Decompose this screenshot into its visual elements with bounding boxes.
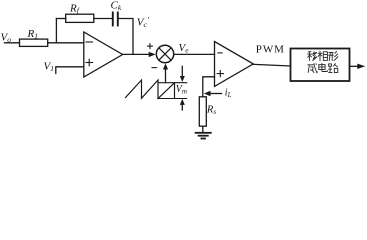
node Ve label xyxy=(179,42,190,55)
wire Rs to ground xyxy=(202,126,204,132)
op-amp U1 xyxy=(84,32,123,77)
char 形 xyxy=(328,51,338,61)
wire summer to comparator inverting input xyxy=(174,53,214,55)
char 成 xyxy=(308,63,318,73)
resistor Rs xyxy=(199,97,206,126)
char 移 xyxy=(307,51,317,61)
node Vm amplitude arrows xyxy=(181,66,183,77)
char 路 xyxy=(328,63,338,72)
wire box output with arrow xyxy=(350,65,359,67)
char 电 xyxy=(319,63,327,71)
wire comparator non-inverting input to Rs xyxy=(203,77,215,97)
comparator U2 xyxy=(215,42,254,87)
label 移相形成电路 (phase-shift forming circuit) drawn as strokes xyxy=(307,51,338,73)
wire Ck to output node xyxy=(119,19,133,55)
node Vc' label xyxy=(137,16,150,30)
resistor Rf xyxy=(66,14,94,22)
capacitor Ck xyxy=(112,13,114,26)
svg-text:PWM: PWM xyxy=(256,43,285,55)
block phase-shift forming circuit box xyxy=(291,49,350,82)
wire R1 to op-amp inverting input xyxy=(48,42,84,44)
wire Vo to R1 xyxy=(5,42,20,44)
node minus sign at summer input xyxy=(152,67,157,69)
wire V1 to op-amp non-inverting input xyxy=(56,67,84,74)
wire comparator output to PWM box xyxy=(253,64,291,66)
sawtooth waveform Vm source xyxy=(126,80,159,99)
wire sawtooth into summer xyxy=(165,66,167,83)
node Vo input label xyxy=(1,32,12,45)
node PWM label xyxy=(256,43,285,55)
wire feedback tap vertical xyxy=(55,19,57,43)
resistor R1 xyxy=(20,39,48,46)
node iL current arrow xyxy=(210,93,222,95)
node V1 input label xyxy=(44,61,54,74)
summing junction multiplier xyxy=(156,45,173,62)
char 相 xyxy=(318,51,328,61)
node plus sign at summer input xyxy=(148,45,153,47)
wire Rf to Ck xyxy=(94,18,112,20)
wire op-amp output to summer xyxy=(123,53,150,55)
ground xyxy=(195,132,212,140)
wire top rail to Rf xyxy=(56,18,65,20)
